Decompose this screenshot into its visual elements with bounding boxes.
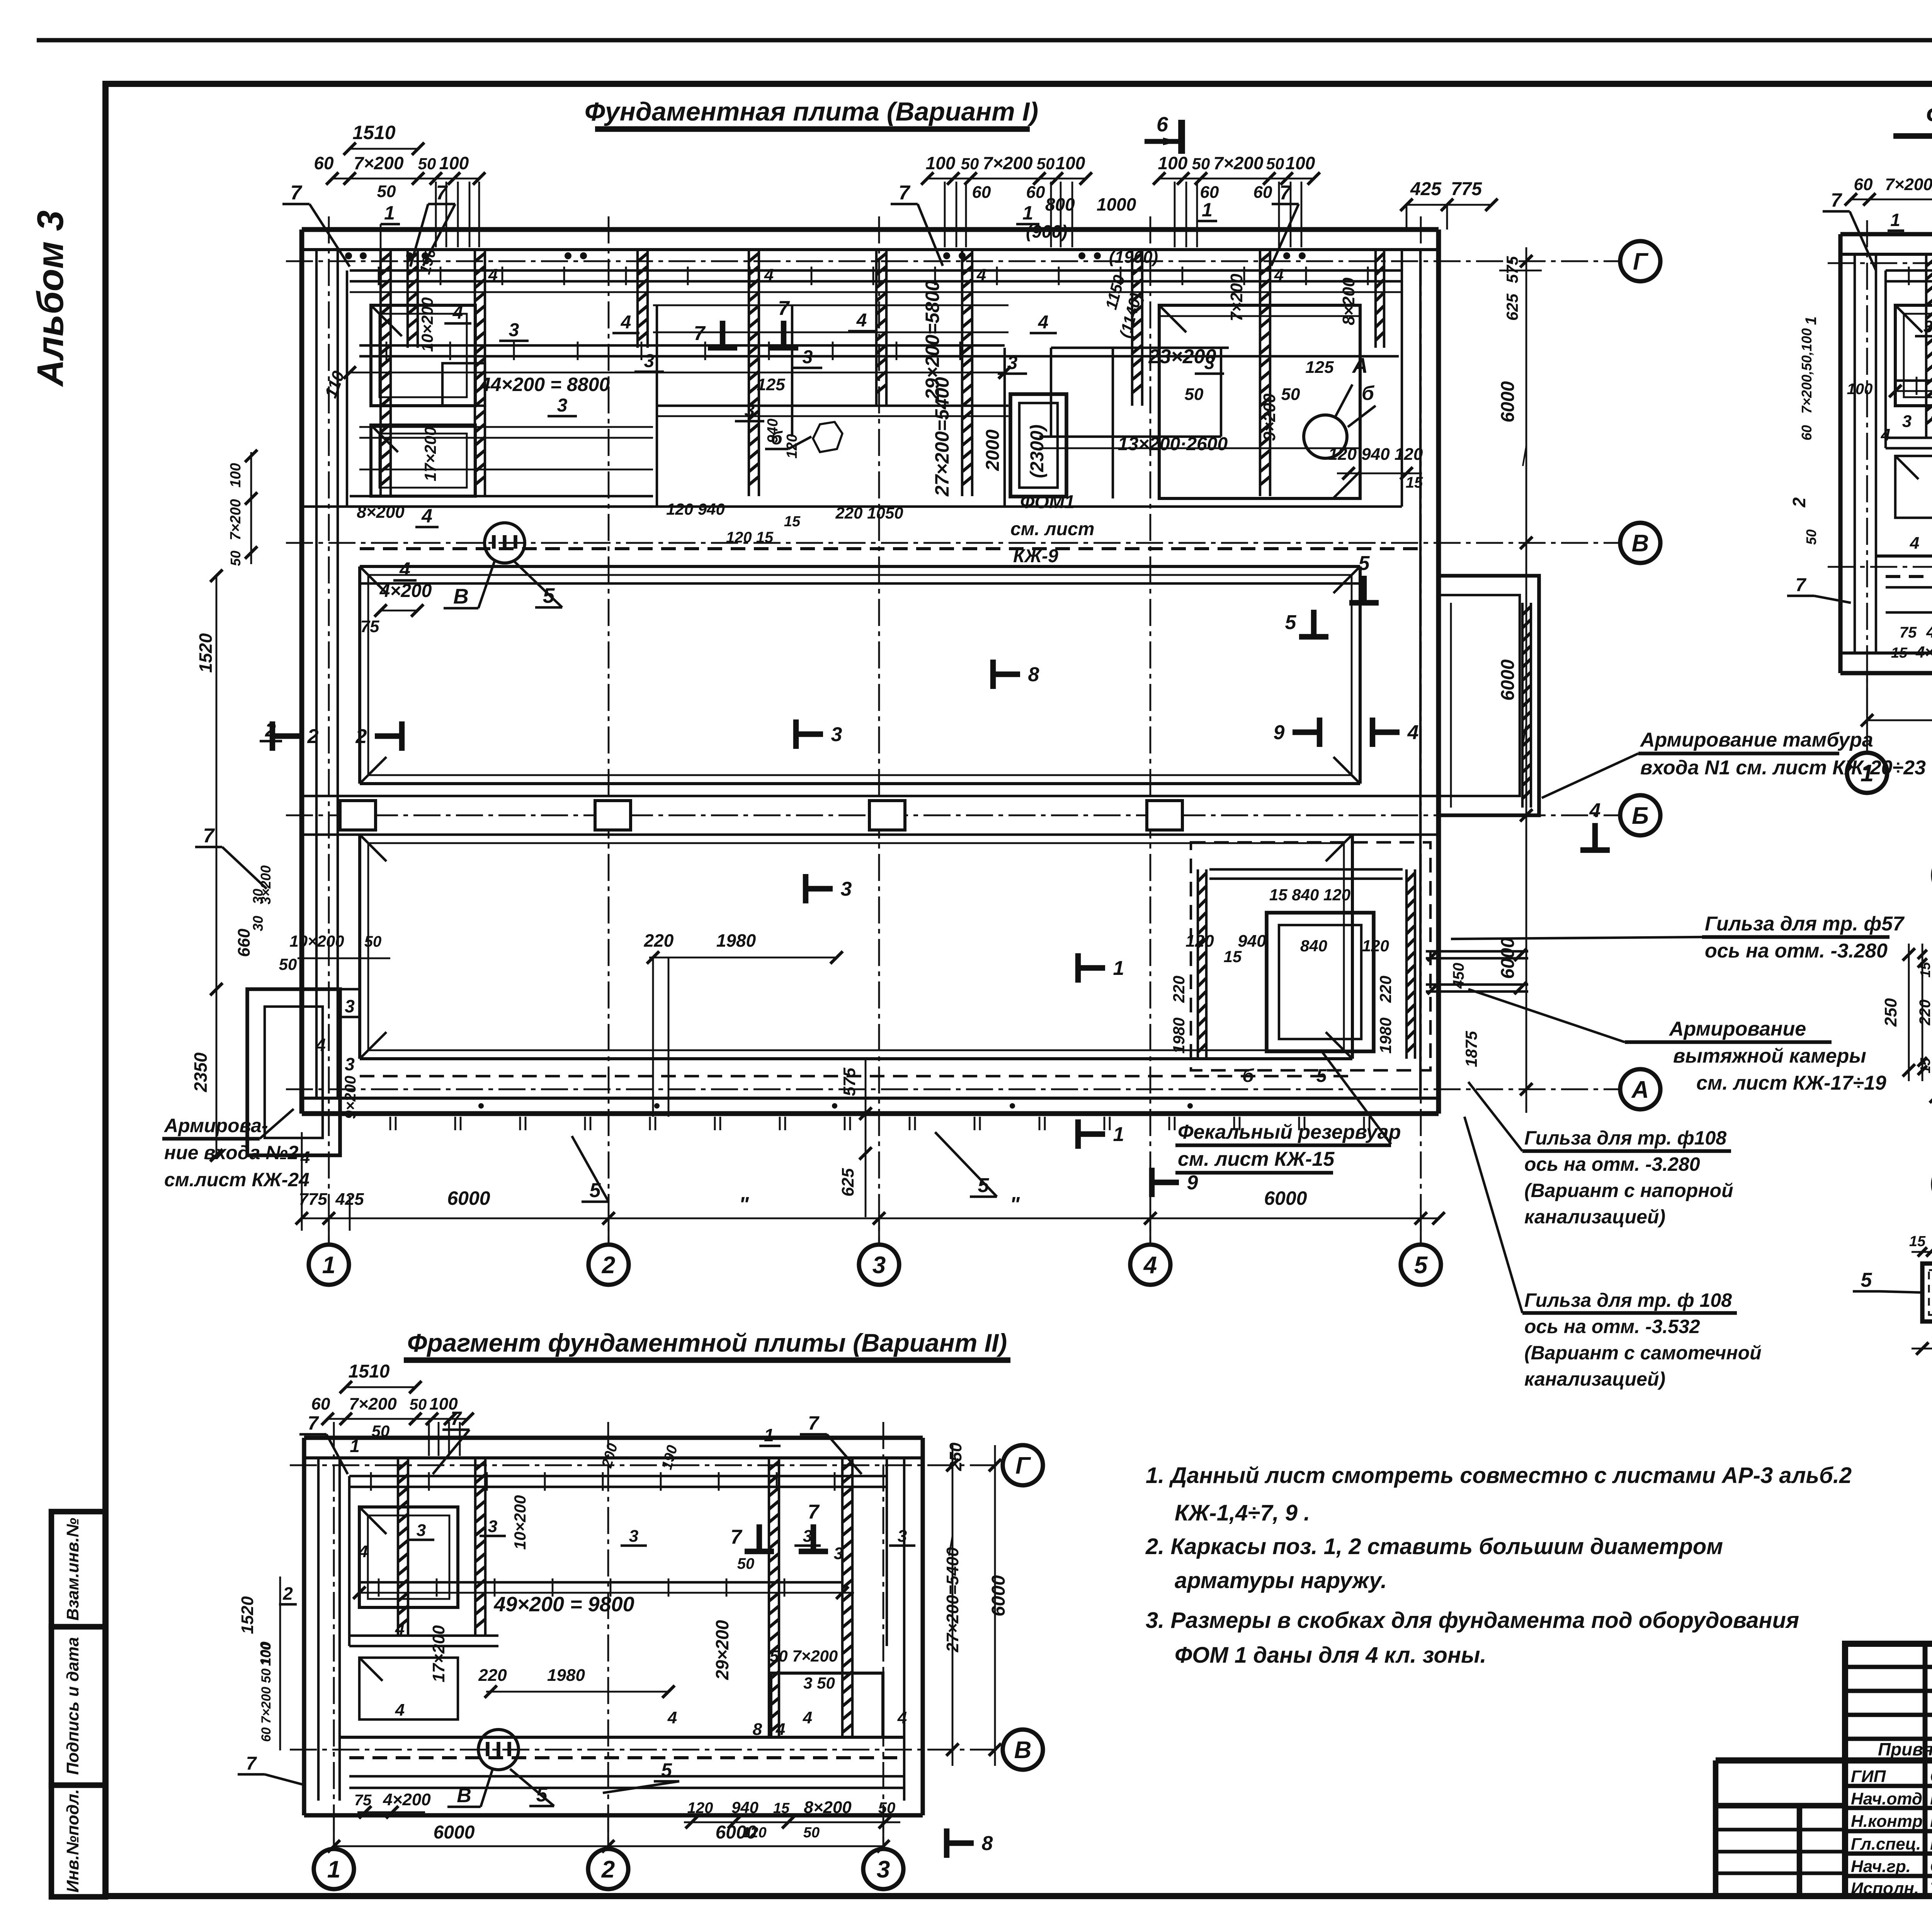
svg-text:8×200: 8×200 (804, 1798, 852, 1817)
svg-text:Армирование тамбура: Армирование тамбура (1639, 729, 1873, 751)
svg-text:9: 9 (1274, 721, 1285, 744)
svg-text:4: 4 (399, 558, 410, 580)
svg-text:Гл.спец.: Гл.спец. (1851, 1835, 1921, 1854)
svg-text:50: 50 (737, 1555, 755, 1572)
svg-text:49×200 = 9800: 49×200 = 9800 (493, 1593, 634, 1616)
svg-text:3: 3 (345, 1054, 355, 1074)
svg-text:Нач.гр.: Нач.гр. (1851, 1857, 1911, 1876)
svg-text:6000: 6000 (1498, 381, 1518, 422)
svg-text:220: 220 (644, 930, 674, 951)
svg-text:15: 15 (1891, 645, 1908, 661)
top-left rooms (371, 305, 475, 406)
rebar cross ticks (370, 1472, 372, 1491)
svg-text:625: 625 (838, 1168, 857, 1197)
svg-text:2000: 2000 (983, 429, 1003, 471)
svg-text:(Вариант с напорной: (Вариант с напорной (1524, 1180, 1733, 1201)
svg-text:15: 15 (1909, 1233, 1926, 1250)
hexagon detail b near axis 3 (813, 422, 842, 452)
svg-text:1980: 1980 (547, 1666, 585, 1685)
svg-text:5: 5 (1414, 1252, 1428, 1279)
svg-text:6000: 6000 (447, 1187, 490, 1209)
svg-text:4: 4 (1910, 534, 1919, 553)
svg-text:10×200: 10×200 (289, 932, 344, 950)
svg-text:9: 9 (1187, 1172, 1198, 1194)
svg-text:60: 60 (311, 1395, 330, 1413)
svg-text:1: 1 (764, 1425, 774, 1445)
section flags Variant I (270, 721, 275, 751)
svg-text:Фекальный резервуар: Фекальный резервуар (1178, 1121, 1401, 1143)
svg-text:(2300): (2300) (1027, 425, 1048, 478)
svg-text:2: 2 (1789, 497, 1809, 508)
svg-text:4×200: 4×200 (379, 581, 432, 601)
svg-text:1510: 1510 (352, 122, 395, 143)
svg-text:КЖ-1,4÷7, 9 .: КЖ-1,4÷7, 9 . (1175, 1500, 1310, 1526)
svg-text:100: 100 (1158, 153, 1188, 173)
svg-text:6: 6 (1156, 113, 1168, 136)
svg-text:250: 250 (946, 1442, 965, 1471)
svg-text:7×200: 7×200 (1885, 175, 1932, 194)
svg-text:7: 7 (899, 182, 911, 204)
top band (1886, 269, 1932, 272)
svg-text:8: 8 (753, 1720, 762, 1739)
svg-text:220: 220 (1170, 976, 1188, 1003)
svg-text:4: 4 (452, 303, 463, 323)
svg-text:1980: 1980 (1170, 1017, 1188, 1053)
svg-text:800: 800 (1045, 194, 1075, 214)
svg-text:8×200: 8×200 (357, 503, 405, 522)
svg-text:7: 7 (308, 1412, 319, 1434)
svg-text:1: 1 (327, 1856, 340, 1883)
svg-text:6000: 6000 (1264, 1187, 1307, 1209)
B wall band (1876, 554, 1932, 558)
svg-text:Гильза для тр. ф108: Гильза для тр. ф108 (1524, 1127, 1726, 1149)
svg-text:б: б (1242, 1066, 1254, 1086)
svg-text:ГИП: ГИП (1851, 1767, 1886, 1786)
svg-text:7: 7 (731, 1526, 743, 1548)
svg-text:1: 1 (1022, 202, 1033, 224)
svg-text:60 7×200 50 100: 60 7×200 50 100 (259, 1643, 274, 1742)
svg-text:7: 7 (694, 322, 706, 345)
top page edge line (37, 38, 1932, 42)
svg-text:120 940 120: 120 940 120 (1328, 445, 1423, 464)
svg-text:940: 940 (731, 1798, 759, 1816)
svg-text:4: 4 (488, 265, 498, 284)
svg-text:13×200·2600: 13×200·2600 (1118, 434, 1228, 454)
svg-text:50 7×200: 50 7×200 (770, 1647, 838, 1665)
svg-text:": " (739, 1193, 749, 1216)
svg-text:Гильза для тр. ф57: Гильза для тр. ф57 (1705, 913, 1905, 935)
svg-text:канализацией): канализацией) (1524, 1368, 1665, 1390)
svg-text:75: 75 (1900, 624, 1917, 641)
svg-text:4: 4 (358, 1542, 368, 1561)
svg-text:6000: 6000 (434, 1822, 475, 1843)
sleeve marks (gilza) through right wall (1426, 950, 1528, 952)
vertical rebar strips top band (406, 250, 409, 348)
svg-text:120: 120 (784, 434, 800, 458)
svg-text:3: 3 (831, 723, 842, 746)
svg-text:4: 4 (1589, 799, 1601, 822)
svg-text:3: 3 (345, 996, 355, 1016)
svg-text:50: 50 (279, 955, 297, 973)
svg-text:100: 100 (439, 153, 469, 173)
axis lines horizontal (286, 260, 1620, 262)
svg-text:220 1050: 220 1050 (835, 504, 903, 522)
svg-text:вытяжной камеры: вытяжной камеры (1673, 1045, 1866, 1067)
svg-text:9×200: 9×200 (342, 1076, 359, 1119)
svg-text:940: 940 (1238, 932, 1266, 951)
svg-text:4: 4 (803, 1708, 812, 1727)
svg-text:см. лист КЖ-17÷19: см. лист КЖ-17÷19 (1696, 1072, 1886, 1094)
svg-text:120: 120 (687, 1799, 713, 1816)
circled junction detail in top band (1304, 415, 1347, 458)
svg-text:8: 8 (1028, 663, 1039, 686)
svg-text:Армирова-: Армирова- (163, 1115, 268, 1136)
svg-text:4: 4 (776, 1720, 785, 1739)
svg-text:50: 50 (1192, 155, 1210, 173)
outer walls (1840, 232, 1932, 236)
svg-text:7: 7 (808, 1412, 820, 1434)
svg-text:Гильза для тр. ф 108: Гильза для тр. ф 108 (1524, 1289, 1732, 1311)
svg-text:5: 5 (1861, 1269, 1872, 1291)
svg-text:Исполн.: Исполн. (1851, 1879, 1919, 1898)
axes (290, 1464, 1001, 1466)
svg-text:1520: 1520 (238, 1596, 257, 1634)
44x200 dim line (350, 372, 1005, 374)
svg-text:4: 4 (315, 1035, 326, 1055)
svg-text:В: В (1632, 530, 1649, 557)
svg-text:Армирование: Армирование (1668, 1018, 1806, 1040)
top band (349, 1475, 887, 1477)
svg-text:5: 5 (1285, 611, 1297, 634)
svg-text:Альбом 3: Альбом 3 (30, 210, 71, 387)
svg-text:(900): (900) (1026, 221, 1067, 241)
svg-text:6000: 6000 (988, 1575, 1009, 1616)
hall 1 (B-Б) (358, 566, 361, 784)
svg-text:Б: Б (1632, 803, 1649, 829)
right exhaust chamber area (1191, 842, 1430, 1070)
svg-text:3: 3 (745, 400, 755, 421)
svg-text:29×200=5800: 29×200=5800 (922, 280, 943, 400)
svg-text:см.лист КЖ-24: см.лист КЖ-24 (164, 1169, 310, 1190)
svg-text:Самитов: Самитов (1930, 1767, 1932, 1786)
svg-text:Г: Г (1633, 248, 1649, 275)
axes (1828, 262, 1932, 264)
svg-text:15: 15 (1917, 1058, 1932, 1073)
svg-text:575: 575 (840, 1068, 859, 1096)
svg-text:Взам.инв.№: Взам.инв.№ (63, 1518, 82, 1621)
svg-text:В: В (457, 1784, 471, 1807)
svg-text:220: 220 (1917, 1000, 1932, 1026)
svg-text:Привязан: Привязан (1878, 1739, 1932, 1759)
svg-text:А: А (1352, 353, 1368, 378)
svg-text:(1900): (1900) (1109, 248, 1158, 267)
junction circle on B axis (485, 523, 525, 563)
svg-text:см. лист: см. лист (1010, 519, 1094, 539)
svg-text:3: 3 (1204, 353, 1215, 373)
svg-text:7×200: 7×200 (228, 499, 244, 541)
svg-text:4: 4 (1274, 265, 1284, 284)
svg-text:50: 50 (961, 155, 979, 173)
rebar cross ticks (378, 267, 380, 285)
rooms (1895, 305, 1932, 406)
svg-text:7: 7 (246, 1753, 257, 1774)
svg-text:(Вариант с самотечной: (Вариант с самотечной (1524, 1342, 1762, 1364)
svg-text:3: 3 (803, 347, 813, 367)
svg-text:7×200: 7×200 (1213, 153, 1264, 173)
svg-text:1875: 1875 (1462, 1031, 1480, 1067)
svg-text:3: 3 (629, 1527, 638, 1546)
svg-text:100: 100 (1056, 153, 1085, 173)
svg-text:7: 7 (451, 1408, 462, 1429)
svg-text:ось на отм. -3.280: ось на отм. -3.280 (1524, 1153, 1700, 1175)
svg-text:Фрагмент фундаментной плиты: Фрагмент фундаментной плиты (Вариант III… (1926, 100, 1932, 129)
svg-text:1980: 1980 (716, 930, 756, 951)
svg-text:3: 3 (877, 1856, 890, 1883)
right tambour protrusion (1439, 576, 1539, 815)
svg-text:7×200,50,100: 7×200,50,100 (1799, 328, 1815, 413)
bottom edge rebar teeth (389, 1117, 391, 1130)
svg-text:100: 100 (228, 463, 244, 487)
svg-text:50: 50 (372, 1422, 390, 1440)
extra partial lines (653, 304, 1009, 306)
rebar cross ticks (1908, 267, 1910, 285)
svg-text:1000: 1000 (1097, 194, 1136, 214)
svg-text:7: 7 (808, 1501, 820, 1523)
svg-text:Климов: Климов (1930, 1812, 1932, 1831)
svg-text:1: 1 (350, 1436, 360, 1456)
rooms (359, 1507, 458, 1607)
svg-text:940: 940 (765, 418, 781, 443)
svg-text:4: 4 (1038, 312, 1049, 333)
Б axis wall piers (302, 795, 1439, 797)
svg-text:ФОМ 1 даны для 4 кл. зоны: ФОМ 1 даны для 4 кл. зоны. (1175, 1643, 1486, 1668)
svg-text:1: 1 (1890, 210, 1900, 230)
svg-text:Козлов: Козлов (1930, 1789, 1932, 1808)
svg-text:4: 4 (856, 310, 867, 331)
right vertical dims (952, 1445, 954, 1766)
B wall band (340, 1736, 904, 1739)
svg-text:2. Каркасы поз. 1, 2 ставит: 2. Каркасы поз. 1, 2 ставить большим диа… (1145, 1534, 1723, 1559)
svg-text:100: 100 (1847, 381, 1873, 398)
svg-text:3: 3 (417, 1521, 426, 1540)
svg-text:Климов: Климов (1930, 1835, 1932, 1854)
axis circles bottom (309, 1245, 349, 1285)
svg-text:7: 7 (1796, 575, 1807, 595)
svg-text:425: 425 (1410, 179, 1442, 199)
svg-text:7: 7 (1831, 189, 1842, 211)
svg-text:2350: 2350 (190, 1052, 211, 1092)
svg-text:4: 4 (421, 505, 432, 527)
junction circle (478, 1730, 519, 1770)
svg-text:3 50: 3 50 (803, 1674, 835, 1692)
svg-text:775: 775 (1451, 179, 1482, 199)
svg-text:15: 15 (773, 1800, 790, 1816)
svg-text:7×200: 7×200 (354, 153, 404, 173)
svg-text:1: 1 (1861, 760, 1874, 787)
svg-text:ось на отм. -3.280: ось на отм. -3.280 (1705, 940, 1888, 962)
svg-text:Инв.№подл.: Инв.№подл. (63, 1789, 82, 1893)
svg-text:Смольянинова Сз –: Смольянинова Сз – (1930, 1857, 1932, 1876)
svg-text:10×200: 10×200 (511, 1495, 529, 1549)
svg-text:50: 50 (418, 155, 436, 173)
svg-text:1: 1 (1803, 316, 1820, 325)
svg-text:2: 2 (355, 725, 367, 748)
svg-text:арматуры наружу.: арматуры наружу. (1175, 1568, 1387, 1593)
svg-text:4: 4 (395, 1619, 405, 1638)
svg-text:8×200: 8×200 (1339, 277, 1358, 325)
svg-text:3: 3 (898, 1527, 907, 1546)
detail Б section (1922, 1264, 1932, 1321)
svg-text:60: 60 (1253, 183, 1272, 202)
svg-text:50: 50 (878, 1799, 896, 1816)
svg-text:Нач.отд.: Нач.отд. (1851, 1789, 1927, 1808)
svg-text:Г: Г (1015, 1452, 1031, 1479)
svg-text:10×200: 10×200 (418, 297, 436, 352)
svg-text:50: 50 (364, 933, 382, 950)
svg-text:5: 5 (1359, 552, 1370, 575)
svg-text:120 15: 120 15 (726, 529, 774, 546)
svg-text:5: 5 (661, 1759, 672, 1781)
svg-text:3: 3 (509, 320, 519, 340)
svg-text:50: 50 (1266, 155, 1284, 173)
svg-text:ФОМ1: ФОМ1 (1020, 492, 1075, 512)
title block (1845, 1644, 1932, 1896)
svg-text:ние входа №2: ние входа №2 (164, 1142, 299, 1163)
svg-text:27×200=5400: 27×200=5400 (943, 1547, 962, 1653)
svg-text:3: 3 (872, 1252, 886, 1279)
svg-text:Фрагмент фундаментной плиты: Фрагмент фундаментной плиты (Вариант II) (407, 1328, 1007, 1357)
svg-text:50: 50 (1281, 385, 1300, 404)
svg-text:100: 100 (926, 153, 956, 173)
outer walls (302, 227, 1439, 232)
Variant I right vertical dim chain (1526, 247, 1527, 1113)
section 6 cut flag top (1178, 120, 1185, 154)
svg-text:4: 4 (976, 265, 986, 284)
svg-text:125: 125 (757, 375, 785, 394)
svg-text:1: 1 (322, 1252, 335, 1279)
hall 2 (Б-А) (358, 835, 361, 1059)
svg-text:5: 5 (1316, 1066, 1327, 1086)
svg-text:7: 7 (291, 182, 303, 204)
svg-text:15: 15 (1917, 962, 1932, 978)
top right room (1159, 305, 1360, 498)
svg-text:В: В (1014, 1737, 1032, 1764)
svg-text:50: 50 (1185, 385, 1204, 404)
svg-text:60: 60 (1799, 425, 1815, 440)
svg-text:60: 60 (314, 153, 334, 173)
svg-text:1. Данный лист смотреть со: 1. Данный лист смотреть совместно с лист… (1146, 1463, 1852, 1488)
svg-text:15 840 120: 15 840 120 (1269, 886, 1350, 904)
small dots bottom walls (478, 1103, 484, 1109)
svg-text:3: 3 (557, 395, 568, 416)
svg-text:3: 3 (834, 1544, 843, 1563)
svg-text:8: 8 (982, 1832, 993, 1855)
svg-text:220: 220 (478, 1666, 507, 1685)
svg-text:2: 2 (601, 1856, 615, 1883)
svg-text:50: 50 (228, 551, 243, 566)
svg-text:44×200 = 8800: 44×200 = 8800 (480, 374, 610, 395)
svg-text:3: 3 (488, 1517, 497, 1536)
svg-text:4: 4 (1881, 425, 1890, 444)
svg-text:120: 120 (1185, 932, 1214, 951)
axis circles right (1620, 241, 1660, 281)
svg-text:120: 120 (1362, 937, 1389, 955)
svg-text:4×200: 4×200 (1926, 622, 1932, 641)
В-axis wall band (302, 505, 1402, 508)
svg-text:4: 4 (1143, 1252, 1157, 1279)
svg-text:60: 60 (1854, 175, 1873, 194)
svg-text:3: 3 (1923, 317, 1932, 336)
middle rooms / ФОМ1 foundation (1010, 394, 1066, 497)
outer walls (304, 1435, 923, 1440)
svg-text:б: б (1362, 382, 1375, 405)
svg-text:А: А (1631, 1077, 1649, 1103)
svg-text:2: 2 (282, 1583, 293, 1604)
svg-text:60: 60 (1026, 183, 1045, 202)
svg-text:625: 625 (1503, 293, 1521, 321)
top band long rebar lines (350, 269, 1402, 272)
svg-text:29×200: 29×200 (712, 1620, 732, 1680)
svg-text:250: 250 (1881, 998, 1900, 1027)
svg-text:1: 1 (1202, 199, 1213, 221)
svg-text:15: 15 (784, 514, 801, 530)
Variant I left vertical dims (216, 576, 218, 1155)
svg-text:1980: 1980 (1376, 1017, 1395, 1053)
svg-text:6000: 6000 (1498, 659, 1518, 701)
Variant I bottom dims (302, 1218, 1439, 1219)
svg-text:1: 1 (384, 202, 395, 224)
svg-text:17×200: 17×200 (421, 427, 439, 481)
svg-text:4: 4 (667, 1708, 677, 1727)
svg-text:9×200: 9×200 (1260, 393, 1279, 441)
svg-text:4: 4 (897, 1708, 907, 1727)
svg-text:3: 3 (841, 878, 852, 900)
svg-text:6000: 6000 (716, 1822, 757, 1843)
svg-text:3: 3 (1007, 353, 1018, 373)
svg-text:1510: 1510 (349, 1361, 390, 1382)
svg-text:ось на отм. -3.532: ось на отм. -3.532 (1524, 1316, 1700, 1337)
svg-text:100: 100 (1286, 153, 1315, 173)
svg-text:840: 840 (1300, 937, 1327, 955)
svg-text:7×200: 7×200 (1227, 274, 1246, 321)
bottom-left entrance protrusion (247, 989, 340, 1155)
svg-text:50: 50 (1803, 529, 1819, 545)
svg-text:660: 660 (235, 929, 253, 957)
svg-text:4: 4 (764, 265, 774, 284)
svg-text:75: 75 (361, 617, 379, 636)
svg-text:50: 50 (377, 182, 396, 201)
svg-text:775: 775 (299, 1190, 327, 1209)
svg-text:30: 30 (250, 916, 266, 931)
svg-text:В: В (453, 584, 469, 608)
svg-text:3. Размеры в скобках для: 3. Размеры в скобках для фундамента под … (1146, 1608, 1799, 1633)
svg-text:7: 7 (1280, 182, 1292, 204)
svg-text:2: 2 (307, 725, 319, 748)
svg-text:4: 4 (621, 312, 631, 333)
svg-text:7×200: 7×200 (983, 153, 1033, 173)
svg-text:Тарасенкова: Тарасенкова (1930, 1879, 1932, 1898)
svg-text:Фундаментная плита (Вариант: Фундаментная плита (Вариант I) (585, 97, 1038, 126)
svg-text:7: 7 (778, 297, 790, 320)
svg-text:3×200: 3×200 (258, 865, 274, 904)
svg-text:1: 1 (1113, 1123, 1124, 1146)
svg-text:125: 125 (1305, 358, 1334, 377)
svg-text:4×200: 4×200 (1915, 643, 1932, 661)
svg-text:3: 3 (644, 351, 655, 371)
svg-text:50: 50 (1037, 155, 1055, 173)
svg-text:см. лист КЖ-15: см. лист КЖ-15 (1178, 1148, 1335, 1170)
svg-text:220: 220 (1376, 976, 1395, 1003)
